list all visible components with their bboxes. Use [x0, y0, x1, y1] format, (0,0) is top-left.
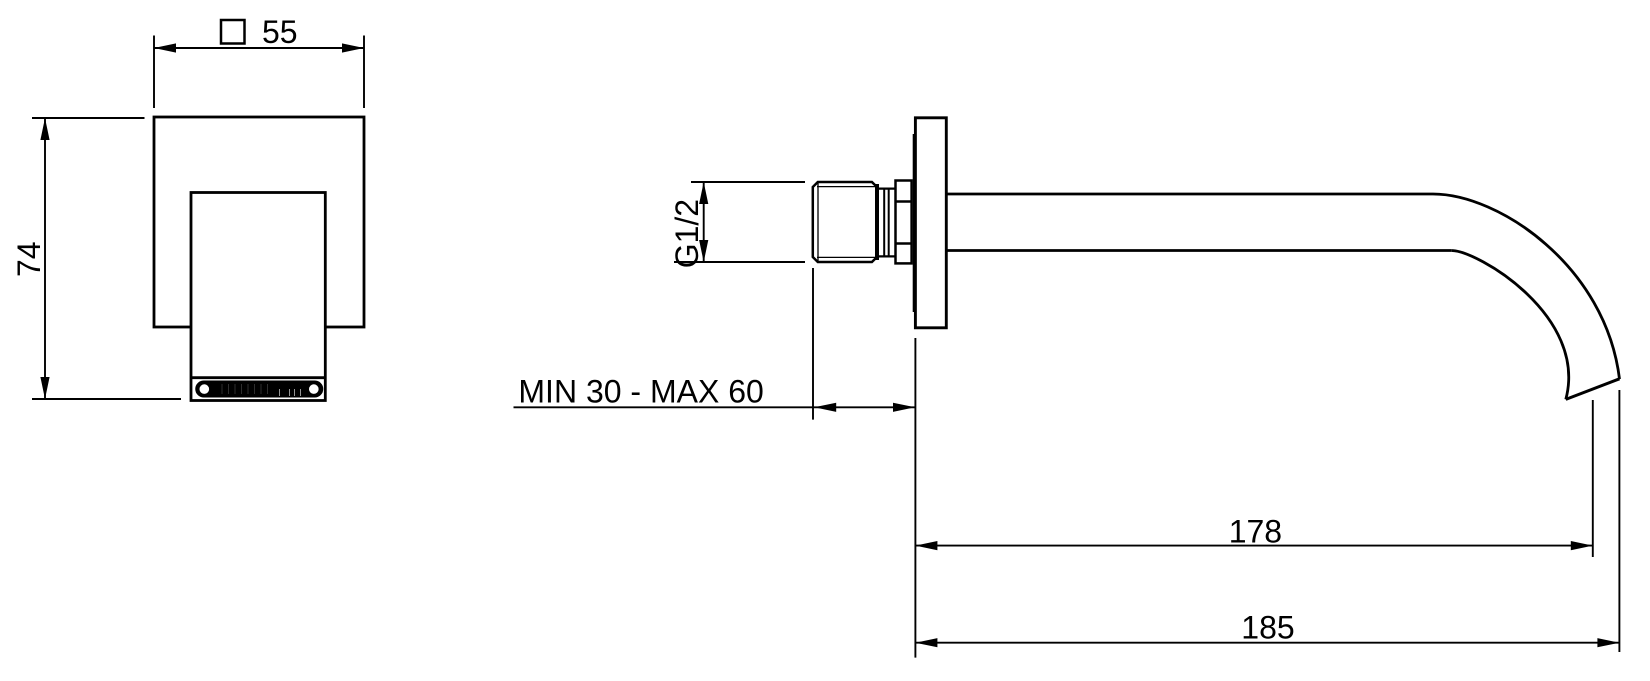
G1/2 extension line top [691, 181, 805, 183]
dimension 55 arrow left [154, 43, 176, 52]
wall reference extension line [914, 338, 916, 658]
neck ring line 1 [883, 189, 885, 257]
MIN 30 - MAX 60 arrow left [814, 403, 836, 412]
thread crest line bottom [817, 256, 877, 258]
dimension 74 line [44, 118, 46, 399]
thread extension line [812, 268, 814, 420]
spout body front view [191, 193, 325, 401]
G1/2 arrow bottom [699, 240, 708, 262]
dimension 55 extension line left [153, 36, 155, 109]
aerator slot [197, 382, 322, 396]
svg-text:185: 185 [1241, 610, 1294, 646]
dimension 55 line [154, 47, 364, 49]
flange rounded back edge [913, 134, 915, 312]
spout tube top line [946, 193, 1433, 196]
spout outer curve [1433, 194, 1620, 379]
svg-text:G1/2: G1/2 [669, 199, 705, 268]
dimension 74 arrow top [40, 118, 49, 140]
wall flange side view [915, 118, 946, 328]
dimension 74 arrow bottom [40, 377, 49, 399]
178 arrow right [1571, 541, 1593, 550]
G1/2 arrow top [699, 182, 708, 204]
nut facet line top [896, 200, 912, 203]
dimension 55 extension line right [363, 36, 365, 109]
square symbol of label 55 [221, 20, 245, 44]
neck top line [877, 188, 896, 190]
wall plate front view [154, 117, 364, 327]
MIN 30 - MAX 60 arrow right [893, 403, 915, 412]
178 arrow left [915, 541, 937, 550]
spout inner curve [1451, 251, 1568, 400]
185 arrow right [1597, 638, 1619, 647]
svg-text:MIN 30 - MAX 60: MIN 30 - MAX 60 [518, 374, 763, 410]
178 dimension line [915, 545, 1592, 547]
thread crest line top [817, 186, 877, 188]
thread chamfer line [817, 183, 819, 262]
G1/2 dimension line [703, 182, 705, 262]
spout end face [1566, 379, 1620, 400]
nut facet line bottom [896, 242, 912, 245]
neck ring line 2 [888, 189, 890, 257]
dimension 74 extension line bottom [32, 398, 181, 400]
nut body [896, 181, 912, 264]
185 arrow left [915, 638, 937, 647]
svg-text:55: 55 [262, 14, 298, 50]
thread end edge [875, 184, 879, 260]
178 extension line [1592, 400, 1594, 557]
spout tube bottom line [946, 249, 1451, 252]
MIN 30 - MAX 60 dimension line [514, 406, 916, 408]
aerator face line [191, 376, 325, 379]
G1/2 extension line bottom [674, 261, 805, 263]
neck bottom line [877, 255, 896, 257]
svg-text:74: 74 [11, 241, 47, 277]
dimension 55 arrow right [342, 43, 364, 52]
dimension 74 extension line top [32, 117, 145, 119]
185 extension line [1618, 390, 1620, 652]
svg-text:178: 178 [1229, 514, 1282, 550]
thread nipple outline [813, 182, 877, 262]
185 dimension line [915, 642, 1619, 644]
